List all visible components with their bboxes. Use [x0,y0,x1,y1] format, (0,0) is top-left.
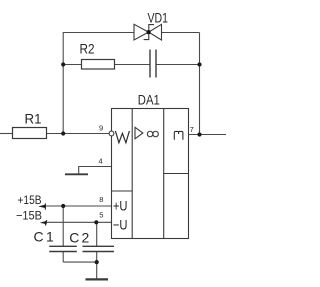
wire pin 8 +15V [45,205,112,207]
wire ground drop [96,262,98,278]
arrow -15V [40,220,47,226]
svg-text:+15В: +15В [18,193,42,207]
wire top left horizontal [63,32,134,34]
svg-text:C: C [69,229,79,245]
svg-text:−U: −U [113,216,128,232]
op-amp DA1 box [112,109,189,239]
wire right vertical bus [199,33,201,135]
label W [115,131,129,143]
svg-text:DA1: DA1 [138,92,160,108]
svg-text:7: 7 [190,125,194,134]
amplifier triangle [135,127,143,139]
inversion circle pin 9 [109,131,114,136]
svg-text:5: 5 [99,211,103,220]
wire -15V branch down to C2 [96,222,98,246]
diode VD1 (bidirectional zener) [134,24,162,40]
capacitor C3 (feedback, unlabeled) [150,50,156,78]
wire top right horizontal [162,32,200,34]
node -15V C2 [94,220,98,224]
capacitor C1 [49,246,77,251]
resistor R1 [13,128,47,139]
wire left vertical bus [62,33,64,134]
svg-text:−15В: −15В [16,209,42,223]
wire input to R1 [0,133,12,135]
wire R2 to C3 [114,64,150,66]
svg-text:4: 4 [99,156,103,165]
svg-text:C: C [34,229,44,245]
label m [174,131,183,139]
wire R1 to pin 9 [47,133,110,135]
node bottom rail [95,260,99,264]
node R2 branch left [61,62,65,66]
resistor R2 [82,60,115,70]
wire pin 4 [79,167,112,174]
svg-text:R1: R1 [25,110,42,126]
wire R2 branch left [63,64,81,66]
svg-text:9: 9 [99,124,103,133]
node right bus cap [197,62,201,66]
ground bottom [86,278,109,280]
svg-text:8: 8 [99,195,103,204]
wire output pin 7 [189,134,227,136]
arrow +15V [38,203,46,209]
svg-text:+U: +U [113,198,128,214]
svg-text:R2: R2 [80,41,95,57]
wire C3 to right bus [156,64,200,66]
wire pin 5 -15V [46,221,112,223]
svg-text:1: 1 [46,229,54,245]
svg-text:VD1: VD1 [148,9,169,25]
ground pin 4 [65,173,88,175]
wire +15V branch down to C1 [62,206,64,246]
svg-text:2: 2 [82,229,90,245]
infinity symbol [147,131,158,137]
node output [197,132,201,136]
wire C2 bottom [96,252,98,263]
wire C1 bottom [62,252,64,263]
node R1 output [61,131,65,135]
capacitor C2 [83,246,115,251]
wire bottom rail [63,261,96,263]
node +15V C1 [61,204,65,208]
